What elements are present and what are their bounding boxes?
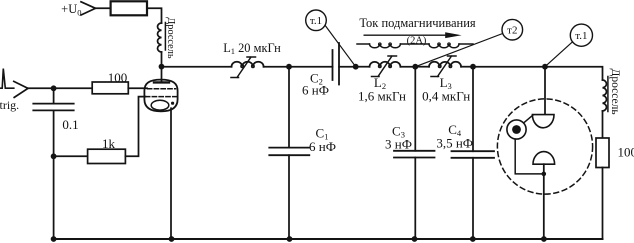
wire dome to bottom junction <box>543 164 545 174</box>
wire C4 to ground rail <box>472 158 474 239</box>
inductor L1 adjustable-core arrow <box>231 57 256 78</box>
label C2 6 нФ <box>302 71 329 98</box>
inductor L2 adjustable-core arrow <box>372 56 397 77</box>
resistor R-anode-supply <box>111 1 147 15</box>
capacitor C3 wire from т2 junction <box>414 67 416 151</box>
wire junction to resistor 1k <box>54 155 88 157</box>
choke L-left core bar <box>164 23 166 51</box>
node т2 callout circle <box>502 19 523 40</box>
bias winding wire left lead <box>357 43 370 45</box>
choke L-right core bar <box>607 77 609 112</box>
leader line т2 to junction <box>415 34 502 67</box>
node +U0 supply terminal label <box>61 2 81 18</box>
label 0.1 <box>62 117 78 132</box>
capacitor C3 plates <box>394 151 435 158</box>
node +U0 input arrow symbol <box>81 2 96 15</box>
svg-text:6 нФ: 6 нФ <box>302 83 329 98</box>
wire L2 to node т2 junction <box>400 66 415 68</box>
label C3 3 нФ <box>385 124 412 152</box>
wire +U0 arrow to anode resistor <box>96 7 111 9</box>
wire L3 to node C junction <box>461 66 473 68</box>
wire top rail: node A to L1 <box>162 66 232 68</box>
node grid junction <box>51 85 57 91</box>
capacitor C4 wire from node C <box>472 67 474 152</box>
node cathode-rail junction <box>169 236 175 242</box>
bias winding over L3 <box>429 44 459 48</box>
label trig. <box>0 98 19 112</box>
wire head to ground rail <box>543 174 545 239</box>
node т.1 junction (after C2) <box>353 64 359 70</box>
wire right choke to resistor 100 <box>602 111 604 138</box>
label L2 1,6 мкГн <box>358 75 406 104</box>
choke L-right (Дроссель) vertical coil <box>603 80 607 111</box>
magnetic head dashed enclosure <box>497 99 592 194</box>
node C4-rail junction <box>470 236 476 242</box>
node rail-left junction <box>51 236 57 242</box>
svg-text:Дроссель: Дроссель <box>165 17 176 59</box>
inductor L1 loop turns <box>241 65 244 68</box>
svg-text:100: 100 <box>618 145 634 160</box>
label Ток подмагничивания <box>359 16 476 30</box>
node C3-rail junction <box>412 236 418 242</box>
svg-text:1k: 1k <box>102 136 116 151</box>
bias current arrow <box>364 34 446 36</box>
tube V1 cathode <box>151 100 169 110</box>
capacitor C4 plates <box>452 151 495 158</box>
wire capacitor 0.1 to ground rail <box>53 110 55 239</box>
bias winding over L2 <box>370 44 401 48</box>
node т.1 callout circle (left) <box>306 10 327 31</box>
trig input arrow symbol <box>14 81 28 97</box>
resistor R-screen 1k <box>88 149 126 163</box>
node C junction (after L3) <box>470 64 476 70</box>
inductor L1 coil <box>232 62 264 67</box>
svg-text:т2: т2 <box>507 25 517 37</box>
wire node D to head top electrode <box>544 67 546 115</box>
wire C1 to ground rail <box>288 155 290 239</box>
node т2 junction (between L2 and L3) <box>412 64 418 70</box>
wire top rail node D to right corner <box>545 67 603 80</box>
svg-text:100: 100 <box>108 70 128 85</box>
label L3 0,4 мкГн <box>422 75 470 104</box>
wire т2 junction to L3 <box>415 66 429 68</box>
node D junction (head feed) <box>542 64 548 70</box>
inductor L2 loop turns <box>379 65 382 68</box>
inductor L3 adjustable-core arrow <box>431 56 456 77</box>
svg-text:+U0: +U0 <box>61 2 81 18</box>
svg-text:L1 20 мкГн: L1 20 мкГн <box>223 41 281 56</box>
node т.1 callout circle (right) <box>570 24 592 46</box>
label Дроссель (right choke) <box>609 69 621 115</box>
svg-text:0,4 мкГн: 0,4 мкГн <box>422 89 470 104</box>
svg-text:т.1: т.1 <box>575 30 587 42</box>
tube V1 grid 2 (dashed) <box>146 96 177 98</box>
tube V1 envelope <box>144 80 177 112</box>
capacitor C-input 0.1 plates <box>33 104 73 111</box>
wire resistor 1k to tube grid 2 <box>125 97 145 157</box>
wire trig arrow to grid node <box>28 87 54 89</box>
wire т.1 junction to L2 <box>356 66 370 68</box>
node head bottom junction <box>542 172 547 177</box>
svg-text:Ток подмагничивания: Ток подмагничивания <box>359 16 476 30</box>
bias winding middle wire <box>400 43 429 45</box>
choke L-left (Дроссель) vertical coil <box>158 23 162 52</box>
wire resistor to choke (top-right corner) <box>147 8 162 23</box>
wire choke to node A <box>161 52 163 67</box>
wire C3 to ground rail <box>414 158 416 240</box>
svg-text:Дроссель: Дроссель <box>609 69 621 115</box>
label 100 (right) <box>618 145 634 160</box>
capacitor C2 plates <box>333 43 340 85</box>
wire C2 to node т.1 junction <box>339 66 356 68</box>
leader line т.1 to junction <box>325 26 356 67</box>
label (2А) <box>407 35 427 46</box>
node head-rail junction <box>541 236 547 242</box>
svg-text:3,5 нФ: 3,5 нФ <box>436 136 473 151</box>
link small circle to top electrode <box>524 115 533 123</box>
label Дроссель (left choke) <box>165 17 176 59</box>
wire small circle L-bend to bottom junction <box>515 139 544 174</box>
wire node C to node D (head junction) <box>473 66 545 68</box>
ground rail (bottom bus) <box>54 238 603 240</box>
label C4 3,5 нФ <box>436 122 473 151</box>
capacitor C1 wire from node B <box>288 67 290 148</box>
wire grid node down to capacitor 0.1 <box>53 88 55 103</box>
svg-text:т.1: т.1 <box>310 15 322 27</box>
inductor L3 coil <box>429 62 461 67</box>
resistor R-grid 100 <box>92 82 128 94</box>
label 100 (grid resistor) <box>108 70 128 85</box>
node A junction (anode node) <box>159 64 165 70</box>
svg-text:1,6 мкГн: 1,6 мкГн <box>358 89 406 104</box>
wire L1 to node B <box>264 66 289 68</box>
node cathode-bias junction <box>51 153 57 159</box>
capacitor C1 plates <box>269 148 309 156</box>
head top electrode <box>532 115 554 128</box>
tube V1 cathode pin dot <box>171 102 174 105</box>
svg-text:3 нФ: 3 нФ <box>385 137 412 152</box>
wire node B to C2 <box>289 66 333 68</box>
tube V1 grid 1 (dashed) <box>148 88 176 90</box>
wire resistor 100 to ground rail corner <box>602 168 604 240</box>
wire resistor 100 to tube grid 1 <box>128 87 147 89</box>
leader line right т.1 to node D <box>545 42 573 67</box>
svg-text:trig.: trig. <box>0 98 19 112</box>
inductor L2 coil <box>370 62 401 67</box>
node C1-rail junction <box>287 236 293 242</box>
resistor R-load 100 (right) <box>596 138 609 168</box>
svg-text:0.1: 0.1 <box>62 117 78 132</box>
wire tube cathode to ground rail <box>170 108 172 239</box>
svg-text:6 нФ: 6 нФ <box>309 139 336 154</box>
inductor L3 loop turns <box>438 65 441 68</box>
wire node A to tube anode <box>161 67 163 82</box>
tube V1 anode plate <box>154 81 169 83</box>
wire grid node to resistor 100 <box>54 87 93 89</box>
label C1 6 нФ <box>309 126 336 155</box>
head erase pole (small circle with dot) <box>507 120 526 139</box>
head bottom electrode (dome) <box>533 152 555 165</box>
node B junction (after L1) <box>286 64 292 70</box>
bias winding wire right lead <box>459 43 473 45</box>
trig pulse waveform symbol <box>0 69 14 89</box>
label 1k <box>102 136 116 151</box>
label L1 20 мкГн <box>223 41 281 56</box>
